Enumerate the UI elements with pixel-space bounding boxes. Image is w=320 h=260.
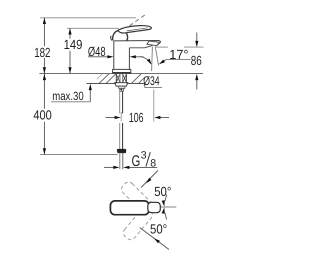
ref line hose end (400 bottom) — [40, 154, 118, 156]
shank outer walls — [115, 74, 117, 83]
base flange bottom band — [113, 72, 131, 74]
svg-text:Ø34: Ø34 — [143, 74, 159, 88]
dim line 149 — [69, 28, 71, 39]
handle axis line — [161, 206, 176, 208]
ref line spout outlet (86 top) seg2 — [184, 46, 204, 48]
handle neck (top view) — [148, 202, 161, 212]
ref line top of lever (182 top) — [40, 17, 136, 19]
svg-text:106: 106 — [129, 110, 144, 125]
counter hatch left — [99, 74, 109, 84]
leader G38 right arrow + underline — [127, 166, 157, 168]
mounting nut — [115, 83, 128, 87]
ref line spout outlet (86 top) seg1 — [156, 46, 168, 48]
supply hose lower segment — [119, 123, 121, 149]
svg-text:86: 86 — [191, 53, 202, 68]
dim arrow 106 right — [157, 117, 169, 119]
water stream line 2 — [155, 46, 158, 65]
underline 17° — [166, 59, 190, 61]
leader G38 left arrow — [104, 166, 116, 168]
leader Ø34 — [144, 84, 146, 88]
svg-text:8: 8 — [150, 158, 156, 170]
connector dot — [121, 89, 123, 91]
leader max.30 — [51, 101, 90, 103]
dim line 400 — [43, 74, 45, 109]
50 upper: stem to axis arrow — [165, 195, 167, 202]
50 upper: radial line with arrow — [141, 171, 158, 188]
connector step 2 — [120, 88, 124, 91]
shank thread cross right — [123, 74, 127, 82]
leader Ø48 left — [89, 56, 111, 58]
svg-text:3: 3 — [141, 150, 147, 162]
hose end connector — [117, 149, 126, 152]
svg-text:17°: 17° — [169, 47, 188, 62]
50 lower: stem to axis arrow — [165, 213, 167, 220]
dim arrow 106 left — [106, 117, 118, 119]
dim line 182 — [43, 18, 45, 47]
phantom handle upper (swung 50°) — [119, 180, 154, 215]
aerator face — [147, 41, 160, 46]
base flange — [113, 69, 131, 73]
spout top edge — [113, 41, 160, 46]
counter underside left — [87, 83, 117, 85]
faucet body left edge — [113, 41, 115, 70]
svg-text:50°: 50° — [150, 221, 167, 236]
svg-text:max.30: max.30 — [52, 89, 84, 103]
spout underside — [129, 46, 152, 48]
connector step 1 — [119, 86, 125, 88]
water stream line 1 — [151, 47, 154, 72]
faucet body right edge — [128, 48, 130, 70]
50 lower: radial line with arrow — [140, 228, 169, 250]
svg-text:149: 149 — [64, 37, 83, 52]
supply hose upper segment — [119, 91, 121, 113]
svg-text:50°: 50° — [154, 184, 171, 199]
counter underside right — [127, 83, 145, 85]
counter hatch right — [132, 74, 142, 84]
svg-text:182: 182 — [34, 45, 50, 60]
lever inner line — [127, 28, 148, 31]
dim arrow 86 top — [196, 33, 198, 43]
leader Ø48 right — [133, 56, 144, 58]
lever raised phantom dashes — [130, 14, 147, 26]
angle arc 17° — [141, 57, 152, 64]
handle grip (top view) — [110, 201, 149, 215]
leader arrow 17° — [163, 60, 167, 62]
ext line 106 left — [120, 112, 122, 122]
shank inner hose walls — [119, 74, 121, 83]
phantom handle lower (swung 50°) — [121, 206, 154, 242]
ref line top of handle (149 top) — [67, 27, 119, 29]
thread G3/8 lines — [119, 153, 121, 170]
svg-text:Ø48: Ø48 — [88, 44, 106, 59]
svg-text:400: 400 — [33, 107, 51, 122]
dim arrow 86 bottom — [196, 78, 198, 90]
ext line 106 right — [153, 90, 155, 122]
lever blade — [118, 26, 151, 33]
svg-text:G: G — [132, 153, 141, 170]
cartridge dome — [113, 30, 128, 41]
counter top line — [39, 73, 203, 75]
shank thread cross left — [116, 74, 120, 82]
